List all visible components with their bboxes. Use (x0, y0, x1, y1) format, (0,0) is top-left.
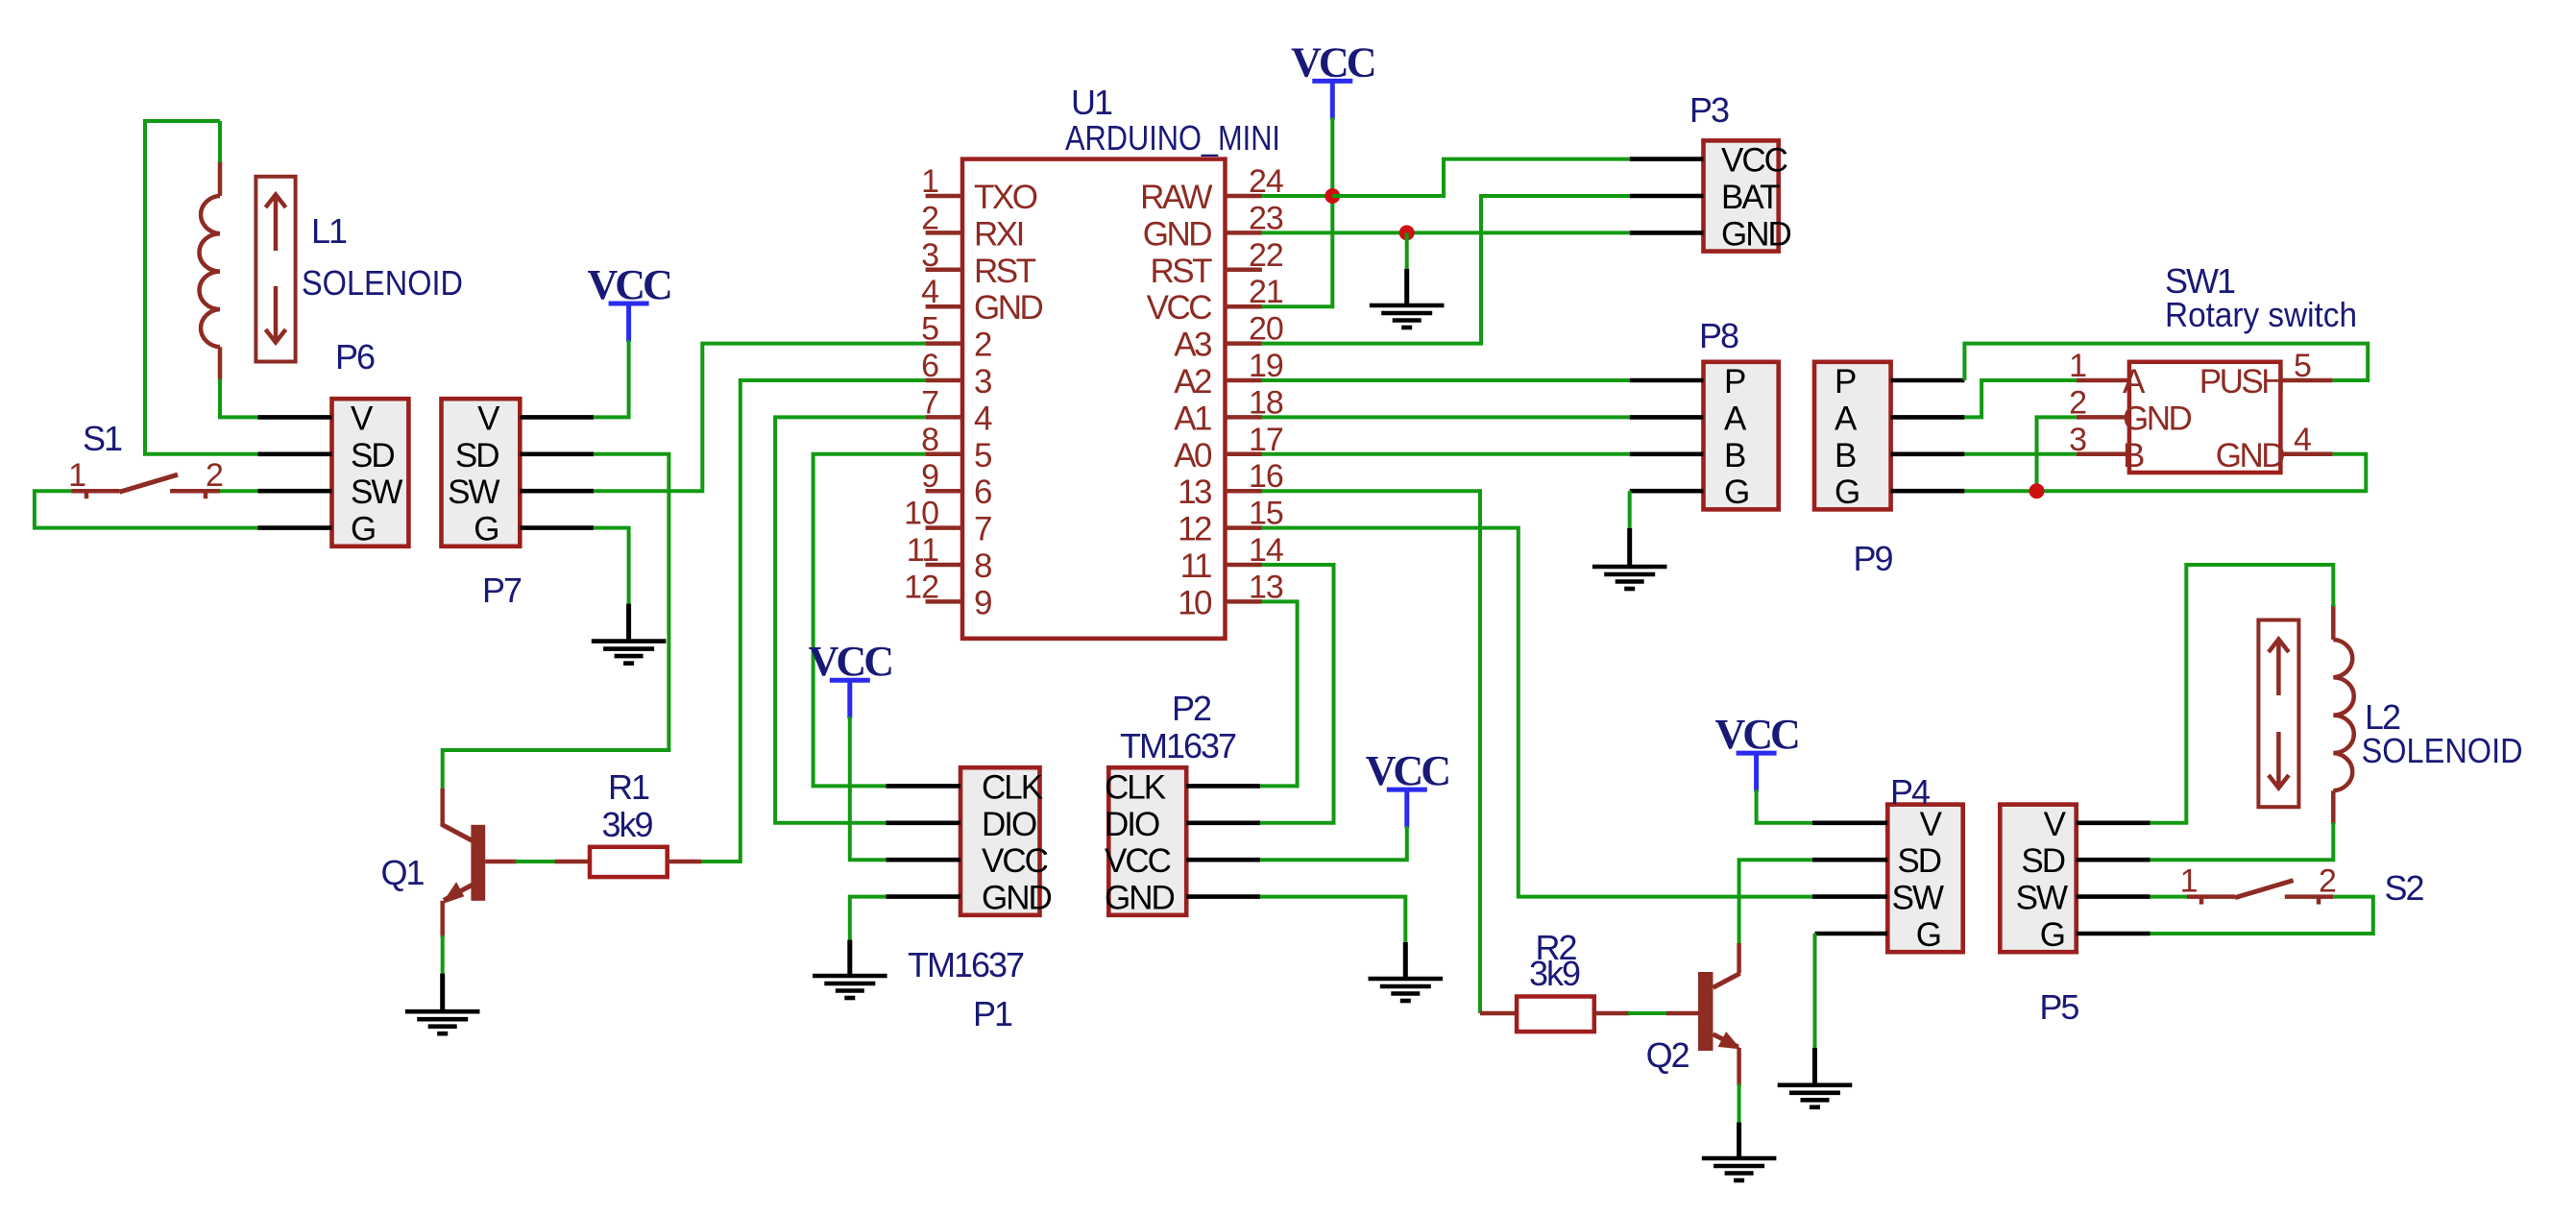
wire U1 pin17 A0 to P8 B (1262, 452, 1630, 456)
P5 pin V (2077, 820, 2151, 825)
svg-text:V: V (2044, 806, 2067, 843)
wire L1 bottom to P6 V (220, 378, 258, 417)
svg-text:10: 10 (904, 496, 938, 532)
P9 pin B (1891, 451, 1965, 456)
svg-text:A: A (1724, 400, 1747, 437)
svg-text:1: 1 (921, 163, 938, 200)
svg-text:U1: U1 (1071, 83, 1112, 122)
P1 pin DIO (886, 820, 960, 825)
U1 pin 23 (GND) (1226, 231, 1262, 235)
connector P2 (1108, 767, 1186, 915)
ground (P2) (1403, 942, 1408, 979)
svg-text:P1: P1 (973, 994, 1012, 1033)
wire VCC to P7 V (594, 340, 629, 417)
svg-text:A0: A0 (1174, 437, 1212, 474)
svg-text:G: G (1724, 473, 1748, 511)
power VCC (P7) (587, 261, 670, 342)
P3 pin GND (1630, 231, 1704, 235)
svg-text:CLK: CLK (1105, 768, 1166, 806)
svg-text:S1: S1 (83, 419, 122, 458)
svg-text:2: 2 (974, 327, 991, 364)
svg-text:SOLENOID: SOLENOID (2362, 731, 2523, 770)
wire U1 pin8 to P1 CLK (814, 454, 926, 787)
svg-text:P3: P3 (1689, 90, 1729, 130)
U1 pin 2 (RXI) (926, 231, 962, 235)
P6 pin V (258, 415, 332, 420)
svg-text:Rotary switch: Rotary switch (2165, 295, 2357, 334)
svg-text:Q2: Q2 (1646, 1035, 1689, 1075)
svg-text:B: B (1835, 437, 1856, 474)
svg-text:BAT: BAT (1721, 179, 1780, 216)
svg-text:2: 2 (2319, 863, 2336, 900)
P8 pin G (1630, 489, 1704, 494)
wire P7 SD to Q1 collector (443, 454, 669, 790)
svg-text:7: 7 (974, 511, 991, 548)
svg-text:12: 12 (904, 569, 938, 605)
P7 pin G (520, 525, 594, 530)
ground (P1) (847, 940, 852, 976)
wire U1 pin15 to P4 SW (1262, 528, 1812, 897)
ground (Q1) (440, 974, 445, 1012)
U1 pin 24 (RAW) (1226, 194, 1262, 199)
inductor L2 (2258, 605, 2353, 825)
P5 pin G (2077, 932, 2151, 936)
svg-text:ARDUINO_MINI: ARDUINO_MINI (1065, 120, 1280, 158)
svg-text:Q1: Q1 (381, 853, 425, 892)
wire U1 pin18 A1 to P8 A (1262, 415, 1630, 419)
ground (P8) (1627, 528, 1632, 567)
svg-text:GND: GND (1143, 215, 1212, 253)
svg-text:5: 5 (2294, 348, 2311, 384)
U1 pin 18 (A1) (1226, 415, 1262, 420)
svg-text:P2: P2 (1172, 689, 1211, 728)
svg-text:G: G (474, 511, 498, 548)
svg-text:4: 4 (2294, 422, 2311, 458)
wire U1 pin23 GND to P3 GND (1262, 231, 1630, 234)
U1 pin 22 (RST) (1226, 268, 1262, 273)
ground (Q2) (1737, 1123, 1741, 1158)
wire L1 top to loop (218, 121, 222, 162)
wire U1 pin7 to P1 DIO (775, 417, 926, 822)
wire VCC down to pin21 (1262, 117, 1332, 306)
svg-text:V: V (351, 400, 374, 437)
P1 pin GND (886, 894, 960, 899)
U1 pin 13 (10) (1226, 599, 1262, 604)
R1 lead right (668, 860, 701, 864)
P7 pin SW (520, 489, 594, 494)
P7 pin SD (520, 451, 594, 456)
IC SW1 body (2129, 362, 2281, 473)
svg-text:SD: SD (2021, 842, 2064, 880)
svg-text:DIO: DIO (1105, 806, 1159, 843)
wire P7 G to ground (594, 528, 629, 606)
connector P9 (1814, 362, 1891, 510)
U1 pin 20 (A3) (1226, 341, 1262, 346)
wire L2 bottom to P5 SD (2151, 822, 2334, 860)
svg-text:3k9: 3k9 (601, 805, 652, 844)
svg-text:P7: P7 (482, 571, 522, 610)
transistor Q1 (442, 789, 486, 937)
ground (P4) (1812, 1048, 1817, 1085)
svg-text:VCC: VCC (1147, 289, 1212, 327)
svg-text:B: B (2123, 437, 2144, 474)
svg-text:14: 14 (1249, 532, 1283, 569)
switch S2 (2187, 881, 2333, 905)
P9 pin P (1891, 378, 1965, 383)
wire Q2 emitter to ground (1738, 1084, 1741, 1125)
svg-text:3: 3 (921, 237, 938, 274)
wire P9 P to SW1 PUSH (1964, 344, 2368, 380)
wire U1 pin24 RAW to VCC net (1262, 194, 1332, 198)
P9 pin G (1891, 489, 1965, 494)
P4 pin SD (1812, 858, 1887, 862)
svg-text:G: G (1835, 473, 1859, 511)
svg-text:GND: GND (2216, 437, 2285, 474)
svg-text:6: 6 (974, 473, 991, 511)
wire P4 G to ground (1813, 934, 1817, 1050)
ground (P7) (626, 604, 631, 642)
svg-text:RST: RST (1151, 253, 1213, 290)
svg-text:GND: GND (1105, 880, 1175, 917)
wire S1 pin2 to P6 SW (220, 489, 258, 493)
connector P4 (1887, 805, 1962, 953)
svg-text:SD: SD (351, 437, 394, 474)
svg-text:P5: P5 (2039, 987, 2078, 1027)
svg-text:TM1637: TM1637 (908, 945, 1024, 984)
U1 pin 7 (4) (926, 415, 962, 420)
inductor L1 (200, 161, 296, 381)
wire P2 GND to ground (1260, 897, 1405, 944)
svg-text:12: 12 (1178, 511, 1211, 548)
svg-text:A: A (2123, 363, 2146, 401)
wire U1 pin19 A2 to P8 P (1262, 378, 1630, 382)
wire VCC to P4 V (1757, 789, 1812, 823)
svg-text:GND: GND (974, 289, 1043, 327)
svg-text:4: 4 (974, 400, 992, 437)
P8 pin P (1630, 378, 1704, 383)
R2 leads right (1594, 1011, 1630, 1016)
svg-text:TM1637: TM1637 (1120, 726, 1236, 765)
wire P5 SW to S2 (2151, 895, 2188, 899)
svg-text:1: 1 (2180, 863, 2198, 900)
svg-text:PUSH: PUSH (2199, 363, 2283, 401)
wire P5 V to L2 top (2151, 565, 2334, 823)
U1 pin 15 (12) (1226, 525, 1262, 530)
connector P5 (2000, 805, 2076, 953)
wire RAW to P3 VCC (1332, 159, 1629, 196)
svg-text:SW: SW (2016, 880, 2068, 917)
U1 pin 12 (9) (926, 599, 962, 604)
svg-text:R1: R1 (608, 767, 649, 807)
P8 pin A (1630, 415, 1704, 420)
wire P2 CLK to U1 pin13 (1260, 601, 1298, 786)
U1 pin 14 (11) (1226, 563, 1262, 568)
svg-text:13: 13 (1178, 473, 1211, 511)
P6 pin G (258, 525, 332, 530)
U1 pin 9 (6) (926, 489, 962, 494)
U1 pin 1 (TXO) (926, 194, 962, 199)
R2 lead left (1480, 1011, 1517, 1016)
P6 pin SD (258, 451, 332, 456)
svg-text:11: 11 (1180, 547, 1211, 585)
P5 pin SW (2077, 894, 2151, 899)
P7 pin V (520, 415, 594, 420)
svg-text:SD: SD (1897, 842, 1940, 880)
U1 pin 21 (VCC) (1226, 304, 1262, 309)
svg-text:2: 2 (206, 457, 223, 494)
P2 pin DIO (1186, 820, 1260, 825)
svg-text:22: 22 (1249, 237, 1283, 274)
ground (GND net) (1404, 269, 1409, 305)
P3 pin VCC (1630, 157, 1704, 161)
wire U1 pin6 to R1 (700, 380, 926, 862)
svg-text:VCC: VCC (1105, 842, 1171, 880)
SW1 pin 5 (PUSH) (2280, 378, 2332, 383)
svg-text:3k9: 3k9 (1529, 954, 1580, 993)
power VCC (P4) (1714, 711, 1798, 791)
SW1 pin 4 (GND) (2280, 452, 2332, 457)
resistor R1 (590, 847, 668, 877)
U1 pin 3 (RST) (926, 268, 962, 273)
svg-text:B: B (1724, 437, 1745, 474)
P2 pin CLK (1186, 784, 1260, 789)
svg-text:P: P (1835, 363, 1856, 401)
svg-text:9: 9 (921, 458, 938, 495)
svg-text:P4: P4 (1890, 772, 1930, 812)
wire VCC to P1 VCC (850, 716, 887, 860)
wire Q1 base to R1 (485, 860, 517, 864)
wire P9 G to SW1 pin4 (1964, 454, 2366, 491)
svg-text:G: G (1916, 916, 1940, 954)
svg-text:L1: L1 (311, 211, 347, 251)
U1 pin 8 (5) (926, 452, 962, 457)
svg-text:9: 9 (974, 584, 991, 621)
P1 pin VCC (886, 858, 960, 862)
connector P7 (442, 399, 521, 546)
U1 pin 10 (7) (926, 525, 962, 530)
IC U1 body (962, 159, 1226, 639)
svg-text:8: 8 (921, 422, 938, 458)
P9 pin A (1891, 415, 1965, 420)
svg-text:6: 6 (921, 348, 938, 384)
P4 pin G (1815, 932, 1888, 936)
P4 pin SW (1812, 894, 1887, 899)
svg-text:P6: P6 (335, 337, 375, 376)
P1 pin CLK (886, 784, 960, 789)
connector P3 (1704, 140, 1779, 251)
U1 pin 6 (3) (926, 378, 962, 383)
svg-text:8: 8 (974, 547, 991, 585)
SW1 pin 1 (A) (2077, 378, 2129, 383)
P4 pin V (1812, 820, 1887, 825)
svg-text:VCC: VCC (1721, 142, 1787, 180)
svg-text:RAW: RAW (1140, 179, 1212, 216)
P5 pin SD (2077, 858, 2151, 862)
U1 pin 17 (A0) (1226, 452, 1262, 457)
svg-text:SW: SW (448, 473, 499, 511)
wire P2 DIO to U1 pin14 (1260, 565, 1334, 823)
wire SW1 pin2 to GND net (2037, 417, 2077, 491)
wire GND junction to ground (1405, 232, 1409, 271)
svg-text:3: 3 (974, 363, 991, 401)
svg-text:P9: P9 (1854, 539, 1893, 578)
svg-text:7: 7 (921, 384, 938, 421)
wire P9 B to SW1 pin3 (1964, 452, 2076, 456)
junction (GND net) (1399, 225, 1415, 240)
SW1 pin 2 (GND) (2077, 415, 2129, 420)
junction (RAW/VCC) (1324, 188, 1340, 204)
svg-text:A1: A1 (1174, 400, 1211, 437)
svg-text:VCC: VCC (982, 842, 1048, 880)
svg-text:V: V (477, 400, 500, 437)
wire S1 pin1 left (35, 491, 258, 527)
svg-text:RXI: RXI (974, 215, 1023, 253)
U1 pin 4 (GND) (926, 304, 962, 309)
svg-text:RST: RST (974, 253, 1036, 290)
svg-text:A3: A3 (1174, 327, 1211, 364)
svg-text:SW: SW (1892, 880, 1944, 917)
svg-text:TXO: TXO (974, 179, 1037, 216)
wire P1 GND to ground (850, 897, 887, 942)
svg-text:CLK: CLK (982, 768, 1043, 806)
power VCC (U1) (1291, 38, 1374, 119)
P8 pin B (1630, 451, 1704, 456)
wire Q2 collector to P4 SD (1739, 860, 1812, 943)
svg-text:P8: P8 (1699, 316, 1738, 355)
wire loop left down to P6 SD (145, 119, 258, 454)
U1 pin 11 (8) (926, 563, 962, 568)
svg-text:G: G (2040, 916, 2064, 954)
SW1 pin 3 (B) (2077, 452, 2129, 457)
svg-text:10: 10 (1178, 584, 1212, 621)
P6 pin SW (258, 489, 332, 494)
switch S1 (71, 474, 220, 498)
svg-text:5: 5 (974, 437, 991, 474)
svg-text:2: 2 (921, 200, 938, 236)
svg-text:A: A (1835, 400, 1858, 437)
svg-text:13: 13 (1249, 569, 1283, 605)
wire S2 pin2 to P5 G (2151, 897, 2373, 934)
connector P6 (332, 399, 409, 546)
P3 pin BAT (1630, 194, 1704, 199)
wire Q1 emitter to ground (441, 935, 445, 976)
svg-text:DIO: DIO (982, 806, 1036, 843)
P2 pin GND (1186, 894, 1260, 899)
U1 pin 16 (13) (1226, 489, 1262, 494)
svg-text:SW: SW (351, 473, 402, 511)
svg-text:S2: S2 (2385, 868, 2424, 908)
wire P8 G to ground (1628, 491, 1632, 530)
svg-text:GND: GND (982, 880, 1052, 917)
resistor R2 (1517, 997, 1594, 1032)
wire P9 A to SW1 pin1 (1964, 380, 2076, 417)
svg-text:GND: GND (1721, 215, 1791, 253)
svg-text:A2: A2 (1174, 363, 1211, 401)
svg-text:G: G (351, 511, 375, 548)
svg-text:SD: SD (455, 437, 498, 474)
U1 pin 19 (A2) (1226, 378, 1262, 383)
svg-text:P: P (1724, 363, 1745, 401)
svg-text:1: 1 (68, 457, 85, 494)
power VCC (P2) (1366, 747, 1449, 828)
svg-text:4: 4 (921, 274, 938, 310)
power VCC (P1) (809, 638, 892, 718)
connector P8 (1704, 362, 1779, 510)
connector P1 (960, 767, 1040, 915)
junction (P9 G net) (2029, 483, 2045, 498)
P2 pin VCC (1186, 858, 1260, 862)
svg-text:SOLENOID: SOLENOID (302, 263, 463, 303)
U1 pin 5 (2) (926, 341, 962, 346)
svg-text:11: 11 (907, 532, 938, 569)
wire VCC to P2 VCC (1260, 826, 1407, 860)
svg-text:5: 5 (921, 311, 938, 348)
transistor Q2 (1698, 943, 1741, 1086)
wire U1 pin5 to P7 SW (594, 344, 926, 492)
wire U1 pin16 to R2 (1262, 491, 1480, 1013)
svg-text:GND: GND (2123, 400, 2192, 437)
wire loop top (145, 119, 220, 123)
wire U1 pin20 A3 to P3 BAT (1262, 196, 1630, 344)
